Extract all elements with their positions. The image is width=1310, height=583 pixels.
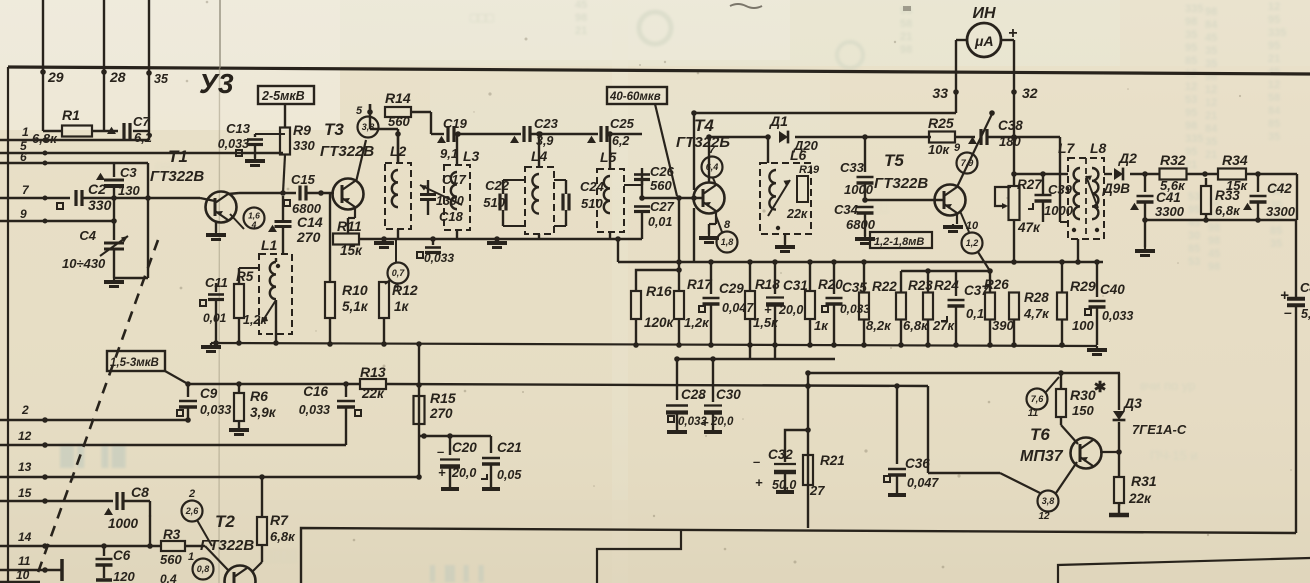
svg-text:21: 21 (900, 31, 912, 43)
svg-text:С6: С6 (113, 548, 131, 563)
svg-text:35: 35 (1268, 131, 1280, 143)
svg-text:98: 98 (575, 12, 587, 24)
svg-text:84: 84 (1205, 123, 1218, 135)
svg-text:μА: μА (974, 33, 994, 49)
svg-text:R25: R25 (928, 115, 954, 131)
svg-text:С38: С38 (998, 118, 1023, 133)
svg-text:R11: R11 (337, 218, 362, 234)
svg-text:Т5: Т5 (884, 151, 904, 170)
svg-text:130: 130 (118, 183, 140, 198)
svg-text:270: 270 (296, 229, 321, 245)
svg-text:120к: 120к (644, 315, 675, 330)
svg-text:35: 35 (1205, 136, 1217, 148)
svg-text:С8: С8 (131, 484, 149, 500)
svg-text:95: 95 (1268, 14, 1280, 26)
svg-text:45: 45 (1268, 66, 1280, 78)
svg-text:85: 85 (1185, 55, 1197, 67)
svg-text:С25: С25 (610, 116, 635, 131)
svg-text:98: 98 (900, 44, 912, 56)
svg-text:С16: С16 (303, 384, 328, 399)
svg-text:150: 150 (1072, 403, 1094, 418)
svg-text:С4: С4 (1300, 280, 1310, 295)
svg-text:+: + (701, 415, 709, 430)
svg-text:L1: L1 (261, 237, 278, 253)
svg-text:6,2: 6,2 (134, 130, 153, 145)
svg-text:1к: 1к (394, 299, 410, 314)
svg-text:░░░░: ░░░░ (260, 548, 297, 564)
svg-text:13: 13 (18, 460, 32, 474)
svg-text:9,1: 9,1 (440, 146, 458, 161)
svg-text:1,2к: 1,2к (243, 313, 267, 327)
svg-text:С9: С9 (200, 386, 218, 401)
svg-text:С20: С20 (452, 440, 477, 455)
svg-text:560: 560 (388, 114, 410, 129)
svg-text:0,05: 0,05 (497, 468, 522, 482)
svg-text:С18: С18 (439, 209, 464, 224)
svg-text:С39: С39 (1048, 182, 1073, 197)
svg-text:С14: С14 (297, 214, 323, 230)
svg-text:R17: R17 (687, 277, 713, 292)
svg-text:85: 85 (1268, 118, 1280, 130)
svg-text:5: 5 (356, 105, 363, 117)
svg-text:335: 335 (1185, 133, 1203, 145)
svg-text:3300: 3300 (1266, 204, 1296, 219)
svg-text:6,8к: 6,8к (270, 529, 296, 544)
svg-text:560: 560 (160, 552, 182, 567)
svg-text:Т2: Т2 (215, 512, 235, 531)
svg-text:0,4: 0,4 (160, 572, 177, 583)
svg-text:ИН: ИН (972, 5, 996, 22)
svg-text:120: 120 (113, 569, 135, 583)
svg-text:2,6: 2,6 (185, 506, 200, 516)
svg-text:1,2-1,8мВ: 1,2-1,8мВ (874, 236, 924, 248)
svg-text:1к: 1к (814, 318, 829, 333)
svg-text:Т1: Т1 (168, 147, 188, 166)
svg-text:35: 35 (1270, 238, 1282, 250)
svg-text:29: 29 (47, 69, 64, 85)
svg-text:L8: L8 (1090, 140, 1107, 156)
svg-text:10: 10 (966, 220, 979, 232)
svg-text:4: 4 (251, 220, 257, 230)
svg-text:–: – (753, 454, 760, 469)
svg-text:0,033: 0,033 (840, 302, 870, 316)
svg-text:7ГЕ1А-С: 7ГЕ1А-С (1132, 422, 1187, 437)
svg-text:0,8: 0,8 (197, 564, 210, 574)
svg-text:6,2: 6,2 (612, 134, 629, 148)
svg-text:R14: R14 (385, 90, 411, 106)
svg-text:С7: С7 (133, 114, 150, 129)
svg-text:1,2: 1,2 (966, 238, 979, 248)
svg-text:Д1: Д1 (769, 113, 788, 129)
svg-text:98: 98 (1205, 6, 1217, 18)
svg-text:4,7к: 4,7к (1023, 306, 1050, 321)
svg-text:С4: С4 (79, 228, 96, 243)
svg-text:+: + (755, 475, 763, 490)
svg-text:9: 9 (954, 142, 961, 154)
svg-text:45: 45 (575, 0, 587, 11)
svg-text:1000: 1000 (108, 516, 139, 531)
svg-text:12: 12 (1038, 511, 1050, 522)
svg-text:+: + (438, 465, 446, 480)
svg-text:7,9: 7,9 (961, 158, 974, 168)
svg-text:22к: 22к (361, 386, 385, 401)
svg-text:5,1к: 5,1к (342, 299, 369, 314)
svg-text:3,9к: 3,9к (250, 405, 277, 420)
svg-text:98: 98 (1208, 261, 1220, 273)
svg-text:21: 21 (1205, 149, 1217, 161)
svg-text:10к: 10к (928, 142, 950, 157)
svg-text:R16: R16 (646, 283, 672, 299)
svg-text:▌▐▌ ▌▐: ▌▐▌ ▌▐ (430, 565, 484, 583)
svg-text:0,01: 0,01 (203, 311, 227, 325)
svg-text:100: 100 (1072, 318, 1094, 333)
svg-text:58: 58 (1268, 92, 1280, 104)
svg-text:330: 330 (88, 197, 112, 213)
svg-text:0,01: 0,01 (648, 215, 672, 229)
svg-text:ГТ322В: ГТ322В (320, 143, 374, 160)
svg-text:58: 58 (900, 18, 912, 30)
svg-text:270: 270 (429, 406, 453, 421)
svg-text:Т3: Т3 (324, 120, 344, 139)
svg-text:84: 84 (1268, 105, 1281, 117)
svg-text:0,7: 0,7 (392, 268, 406, 278)
svg-text:95: 95 (1185, 42, 1197, 54)
svg-text:35: 35 (1185, 29, 1197, 41)
svg-text:330: 330 (293, 138, 315, 153)
svg-text:2: 2 (188, 488, 195, 500)
svg-text:Т4: Т4 (694, 116, 714, 135)
svg-text:L5: L5 (600, 149, 617, 165)
svg-text:2: 2 (21, 403, 29, 417)
svg-text:560: 560 (650, 178, 672, 193)
svg-text:R9: R9 (293, 122, 311, 138)
svg-text:+: + (764, 302, 772, 317)
svg-text:10÷430: 10÷430 (62, 256, 106, 271)
svg-text:□□□: □□□ (470, 10, 494, 25)
svg-text:С41: С41 (1156, 190, 1181, 205)
svg-text:С24: С24 (580, 179, 605, 194)
svg-text:5,0: 5,0 (1301, 307, 1310, 321)
svg-text:6: 6 (20, 150, 27, 164)
svg-text:С40: С40 (1100, 282, 1125, 297)
svg-text:20,0: 20,0 (451, 466, 476, 480)
svg-text:ГТ322В: ГТ322В (150, 168, 204, 185)
svg-text:1300: 1300 (436, 194, 464, 208)
svg-text:35: 35 (1205, 45, 1217, 57)
svg-text:7,6: 7,6 (1031, 394, 1045, 404)
svg-text:28: 28 (109, 69, 126, 85)
svg-text:6: 6 (393, 283, 399, 294)
svg-text:15: 15 (18, 486, 32, 500)
svg-text:+: + (1280, 287, 1289, 304)
svg-text:335: 335 (1268, 27, 1286, 39)
svg-text:–: – (761, 280, 768, 294)
svg-text:–: – (1284, 304, 1292, 320)
svg-text:R31: R31 (1131, 473, 1157, 489)
svg-text:1,2к: 1,2к (684, 315, 710, 330)
svg-text:1: 1 (22, 125, 29, 139)
svg-text:0,033: 0,033 (299, 403, 330, 417)
svg-text:21: 21 (575, 25, 587, 37)
svg-text:510: 510 (483, 195, 505, 210)
svg-text:21: 21 (1205, 110, 1217, 122)
svg-text:6800: 6800 (846, 217, 876, 232)
svg-text:С2: С2 (88, 181, 106, 197)
svg-text:ГТ322В: ГТ322В (874, 175, 928, 192)
svg-text:–: – (437, 444, 444, 459)
svg-text:R23: R23 (908, 278, 933, 293)
svg-text:R1: R1 (62, 107, 80, 123)
svg-text:вчи по ур: вчи по ур (1140, 378, 1195, 393)
svg-text:53: 53 (1185, 94, 1197, 106)
svg-text:R15: R15 (430, 390, 456, 406)
svg-text:R19: R19 (799, 164, 820, 176)
svg-text:R27: R27 (1017, 177, 1043, 192)
svg-text:95: 95 (1185, 107, 1197, 119)
svg-text:R13: R13 (360, 364, 386, 380)
svg-text:L3: L3 (463, 148, 480, 164)
svg-text:10: 10 (16, 568, 30, 582)
svg-text:L6: L6 (790, 147, 807, 163)
svg-text:С33: С33 (840, 160, 865, 175)
svg-text:45: 45 (1205, 32, 1217, 44)
svg-text:6,4: 6,4 (706, 162, 719, 172)
svg-text:–: – (698, 389, 705, 404)
svg-text:2-5мкВ: 2-5мкВ (261, 89, 305, 103)
svg-text:35: 35 (154, 72, 169, 86)
svg-text:0,033: 0,033 (200, 403, 231, 417)
svg-text:С29: С29 (719, 281, 744, 296)
svg-text:9: 9 (20, 207, 27, 221)
svg-text:8: 8 (724, 219, 731, 231)
svg-text:1,8: 1,8 (721, 237, 734, 247)
svg-text:ПЧ-15 и: ПЧ-15 и (1150, 448, 1198, 463)
svg-text:3,8: 3,8 (362, 122, 375, 132)
svg-text:8,2к: 8,2к (866, 318, 892, 333)
svg-text:0,033: 0,033 (424, 251, 454, 265)
svg-text:47к: 47к (1017, 220, 1041, 235)
svg-text:22к: 22к (1128, 491, 1152, 506)
svg-text:14: 14 (18, 530, 32, 544)
svg-text:510: 510 (581, 196, 603, 211)
svg-text:Д2: Д2 (1118, 150, 1137, 166)
svg-text:98: 98 (1185, 16, 1197, 28)
svg-text:У3: У3 (199, 68, 234, 99)
svg-text:84: 84 (1205, 19, 1218, 31)
svg-text:3,8: 3,8 (1042, 496, 1055, 506)
svg-text:0,047: 0,047 (722, 301, 754, 315)
svg-text:С19: С19 (443, 116, 468, 131)
svg-text:98: 98 (1208, 222, 1220, 234)
svg-text:40-60мкв: 40-60мкв (609, 91, 661, 103)
svg-text:С17: С17 (442, 172, 467, 187)
svg-text:Т6: Т6 (1030, 425, 1050, 444)
svg-text:R21: R21 (820, 453, 845, 468)
svg-text:L7: L7 (1058, 140, 1076, 156)
svg-text:Д3: Д3 (1123, 395, 1142, 411)
svg-text:R3: R3 (163, 527, 181, 542)
svg-text:15к: 15к (340, 243, 363, 258)
svg-text:R28: R28 (1024, 290, 1049, 305)
svg-text:3300: 3300 (1155, 204, 1185, 219)
svg-text:С32: С32 (768, 447, 793, 462)
svg-text:R26: R26 (984, 277, 1009, 292)
svg-text:98: 98 (1185, 120, 1197, 132)
svg-text:1,5-3мкВ: 1,5-3мкВ (110, 357, 159, 369)
svg-text:98: 98 (1208, 235, 1220, 247)
svg-text:35: 35 (1205, 58, 1217, 70)
svg-text:85: 85 (1188, 243, 1200, 255)
svg-text:С13: С13 (226, 121, 251, 136)
svg-text:1000: 1000 (1044, 203, 1074, 218)
svg-text:95: 95 (1268, 40, 1280, 52)
svg-text:R34: R34 (1222, 152, 1248, 168)
svg-text:12: 12 (1268, 1, 1280, 13)
svg-text:С3: С3 (120, 165, 137, 180)
svg-text:53: 53 (1188, 256, 1200, 268)
svg-text:R33: R33 (1215, 188, 1240, 203)
svg-text:✱: ✱ (1094, 379, 1107, 396)
svg-text:С36: С36 (905, 456, 930, 471)
svg-text:85: 85 (1270, 225, 1282, 237)
svg-text:R32: R32 (1160, 152, 1186, 168)
svg-text:53: 53 (1188, 191, 1200, 203)
svg-text:R10: R10 (342, 282, 368, 298)
svg-text:30: 30 (1188, 230, 1200, 242)
svg-text:С34: С34 (834, 202, 859, 217)
svg-text:С21: С21 (497, 440, 522, 455)
svg-text:R30: R30 (1070, 387, 1096, 403)
svg-text:0,033: 0,033 (1102, 309, 1133, 323)
svg-text:45: 45 (1208, 248, 1220, 260)
svg-text:0,1: 0,1 (966, 306, 984, 321)
svg-text:32: 32 (1022, 85, 1038, 101)
svg-text:335: 335 (1185, 3, 1203, 15)
svg-text:1000: 1000 (844, 182, 874, 197)
svg-text:22к: 22к (786, 207, 808, 221)
svg-text:21: 21 (1268, 53, 1280, 65)
svg-text:11: 11 (1028, 408, 1039, 419)
svg-text:95: 95 (1185, 146, 1197, 158)
svg-text:█▌▐█: █▌▐█ (60, 443, 129, 469)
svg-text:6,8к: 6,8к (1215, 203, 1241, 218)
svg-text:27: 27 (809, 483, 825, 498)
svg-text:95: 95 (1188, 204, 1200, 216)
svg-text:С30: С30 (716, 387, 741, 402)
svg-text:0,033: 0,033 (218, 137, 249, 151)
svg-text:Д9В: Д9В (1102, 181, 1130, 196)
svg-text:12: 12 (18, 429, 32, 443)
svg-text:12: 12 (1205, 84, 1217, 96)
svg-text:33: 33 (932, 85, 948, 101)
svg-text:12: 12 (1268, 79, 1280, 91)
svg-text:20,0: 20,0 (778, 303, 803, 317)
svg-text:С27: С27 (650, 199, 675, 214)
svg-text:0,047: 0,047 (907, 476, 939, 490)
svg-text:МП37: МП37 (1020, 448, 1064, 465)
svg-text:R22: R22 (872, 279, 897, 294)
svg-text:С42: С42 (1267, 181, 1292, 196)
svg-text:12: 12 (1185, 81, 1197, 93)
svg-text:R20: R20 (818, 277, 843, 292)
svg-text:1: 1 (188, 551, 194, 563)
svg-text:R6: R6 (250, 388, 268, 404)
svg-text:С15: С15 (291, 172, 316, 187)
svg-text:R29: R29 (1070, 278, 1096, 294)
svg-text:R7: R7 (270, 512, 289, 528)
svg-text:11: 11 (18, 554, 31, 568)
svg-text:12: 12 (1205, 97, 1217, 109)
svg-text:С23: С23 (534, 116, 559, 131)
